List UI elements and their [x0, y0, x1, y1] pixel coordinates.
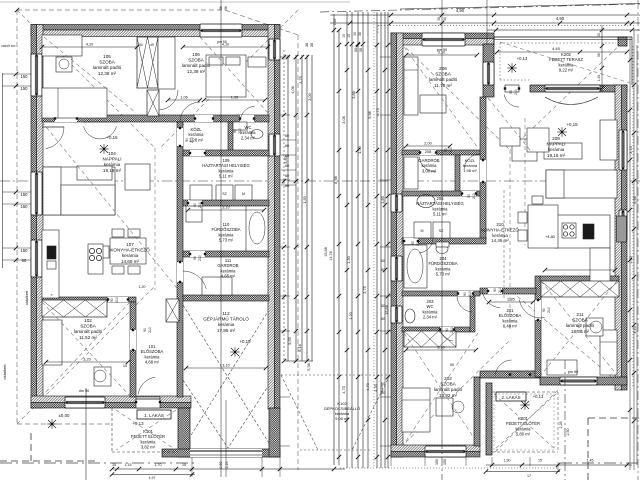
svg-text:6,98: 6,98 [633, 196, 637, 203]
svg-text:1,90: 1,90 [504, 459, 511, 463]
svg-text:3,00: 3,00 [307, 92, 312, 100]
svg-text:9,55: 9,55 [287, 337, 292, 345]
svg-text:210: 210 [547, 307, 551, 313]
svg-text:210: 210 [198, 255, 202, 261]
svg-text:210: 210 [449, 147, 453, 153]
svg-text:60: 60 [285, 164, 289, 168]
svg-text:1,06: 1,06 [180, 96, 187, 100]
svg-text:3,75: 3,75 [298, 76, 303, 84]
svg-text:6,75: 6,75 [375, 108, 380, 116]
svg-text:+0,13: +0,13 [132, 421, 144, 426]
svg-text:90: 90 [444, 148, 448, 152]
svg-text:3,10: 3,10 [437, 346, 444, 350]
svg-text:38: 38 [358, 32, 362, 36]
svg-text:1,65: 1,65 [380, 196, 385, 204]
svg-text:15,68: 15,68 [324, 247, 328, 257]
svg-text:1,50: 1,50 [346, 255, 351, 263]
svg-text:06: 06 [224, 6, 228, 10]
svg-text:1,50: 1,50 [629, 256, 633, 263]
svg-text:15: 15 [342, 34, 346, 38]
svg-text:8,18: 8,18 [297, 344, 302, 352]
svg-text:90: 90 [493, 288, 497, 292]
svg-text:210: 210 [514, 89, 518, 95]
svg-text:+0,13: +0,13 [517, 56, 528, 61]
svg-text:4,90: 4,90 [556, 16, 565, 21]
svg-text:4,70: 4,70 [365, 382, 370, 390]
svg-text:3,10: 3,10 [438, 51, 445, 55]
svg-text:15: 15 [112, 463, 116, 467]
svg-text:210: 210 [198, 202, 202, 208]
svg-text:10: 10 [123, 364, 127, 368]
svg-text:150: 150 [435, 459, 439, 465]
svg-text:1,70: 1,70 [155, 463, 162, 467]
svg-text:150: 150 [443, 459, 447, 465]
svg-text:+0,15: +0,15 [106, 135, 118, 140]
svg-text:5,96: 5,96 [367, 111, 372, 119]
svg-text:90: 90 [463, 292, 467, 296]
svg-text:150: 150 [21, 248, 29, 253]
svg-text:4,10: 4,10 [86, 43, 93, 47]
svg-text:M: M [242, 192, 245, 196]
svg-text:38: 38 [443, 17, 447, 21]
svg-text:dm 90: dm 90 [79, 389, 90, 393]
svg-text:M: M [421, 229, 424, 233]
svg-text:60: 60 [381, 259, 385, 263]
svg-text:1,45: 1,45 [587, 459, 594, 463]
svg-text:1,20: 1,20 [139, 285, 146, 289]
svg-text:SZ: SZ [222, 192, 227, 196]
svg-text:4,90: 4,90 [456, 8, 465, 13]
svg-text:210: 210 [498, 287, 502, 293]
svg-text:90: 90 [542, 308, 546, 312]
svg-text:38: 38 [309, 43, 314, 47]
svg-text:3,10: 3,10 [629, 146, 633, 153]
svg-text:oldalkert: oldalkert [25, 290, 29, 305]
svg-text:4,35: 4,35 [373, 384, 378, 392]
svg-text:3,10: 3,10 [222, 364, 229, 368]
svg-text:60: 60 [285, 154, 289, 158]
svg-text:SZ: SZ [439, 229, 444, 233]
svg-text:1,95: 1,95 [231, 96, 238, 100]
svg-text:90: 90 [467, 194, 471, 198]
svg-text:1,15: 1,15 [125, 463, 132, 467]
svg-text:1,50: 1,50 [333, 19, 337, 26]
svg-text:150: 150 [21, 74, 29, 79]
svg-text:98: 98 [597, 53, 601, 57]
svg-text:60: 60 [285, 174, 289, 178]
svg-text:60: 60 [22, 258, 27, 263]
svg-text:14,78: 14,78 [329, 251, 333, 261]
svg-text:210: 210 [472, 193, 476, 199]
svg-text:+0,15: +0,15 [566, 122, 578, 127]
svg-text:4,73: 4,73 [341, 386, 346, 394]
svg-text:2,50: 2,50 [566, 429, 570, 436]
svg-text:90: 90 [143, 328, 147, 332]
svg-text:3,88: 3,88 [351, 91, 356, 99]
svg-text:15: 15 [182, 463, 186, 467]
svg-text:+4,80: +4,80 [545, 235, 555, 239]
svg-text:210: 210 [450, 327, 454, 333]
svg-text:60: 60 [285, 184, 289, 188]
svg-text:90: 90 [139, 43, 143, 47]
svg-text:2. LAKÁS: 2. LAKÁS [501, 395, 520, 400]
svg-text:+0,15: +0,15 [239, 339, 251, 344]
svg-text:90: 90 [185, 138, 189, 142]
svg-text:oldalkert: oldalkert [2, 364, 7, 380]
svg-text:pm 90: pm 90 [568, 370, 579, 374]
svg-text:90: 90 [193, 203, 197, 207]
svg-text:30: 30 [353, 32, 357, 36]
svg-text:3,20: 3,20 [83, 358, 90, 362]
svg-text:2,85: 2,85 [507, 298, 514, 302]
svg-text:90: 90 [509, 90, 513, 94]
svg-text:06: 06 [219, 6, 223, 10]
svg-text:60: 60 [381, 391, 385, 395]
svg-text:4,45: 4,45 [552, 46, 561, 51]
svg-text:1,97: 1,97 [149, 476, 156, 480]
svg-text:3,10: 3,10 [633, 326, 637, 333]
svg-text:15: 15 [597, 33, 601, 37]
svg-text:45: 45 [150, 43, 154, 47]
svg-text:210: 210 [468, 291, 472, 297]
svg-text:1. LAKÁS: 1. LAKÁS [144, 412, 164, 418]
svg-text:15: 15 [538, 459, 542, 463]
svg-text:2,25: 2,25 [225, 462, 229, 469]
svg-text:208: 208 [425, 149, 432, 154]
svg-text:210: 210 [148, 327, 152, 333]
svg-text:1,45: 1,45 [597, 75, 601, 82]
svg-text:150: 150 [21, 86, 29, 91]
svg-text:150: 150 [21, 204, 29, 209]
svg-text:90: 90 [193, 256, 197, 260]
svg-text:1,20: 1,20 [348, 311, 353, 319]
svg-text:vakolt ker.: vakolt ker. [1, 44, 16, 48]
svg-text:2,28: 2,28 [559, 422, 563, 429]
svg-text:90: 90 [233, 129, 237, 133]
svg-text:90: 90 [445, 328, 449, 332]
svg-text:2,00: 2,00 [424, 142, 431, 146]
svg-text:3,08: 3,08 [341, 116, 346, 124]
svg-text:90: 90 [411, 241, 415, 245]
svg-text:210: 210 [190, 137, 194, 143]
svg-text:60: 60 [285, 134, 289, 138]
svg-text:2,50: 2,50 [219, 462, 223, 469]
svg-text:6,98: 6,98 [333, 176, 338, 184]
svg-text:pm 90: pm 90 [217, 40, 227, 44]
svg-text:90: 90 [110, 298, 114, 302]
svg-text:38: 38 [437, 17, 441, 21]
svg-text:+0,13: +0,13 [533, 394, 544, 399]
svg-text:60: 60 [381, 304, 385, 308]
svg-text:1,50: 1,50 [302, 195, 307, 203]
svg-text:3,10: 3,10 [222, 206, 229, 210]
svg-text:150: 150 [21, 192, 29, 197]
svg-text:210: 210 [238, 128, 242, 134]
svg-text:1,50: 1,50 [357, 145, 362, 153]
svg-text:4,06: 4,06 [290, 86, 295, 94]
svg-text:210: 210 [115, 297, 119, 303]
svg-text:90: 90 [450, 363, 454, 367]
svg-text:17: 17 [527, 474, 531, 478]
svg-text:3,75: 3,75 [362, 286, 367, 294]
svg-text:15: 15 [347, 34, 351, 38]
svg-text:60: 60 [381, 317, 385, 321]
svg-text:±0,00: ±0,00 [59, 413, 71, 418]
svg-text:5,58: 5,58 [306, 363, 311, 371]
svg-text:210: 210 [416, 240, 420, 246]
svg-text:60: 60 [285, 144, 289, 148]
